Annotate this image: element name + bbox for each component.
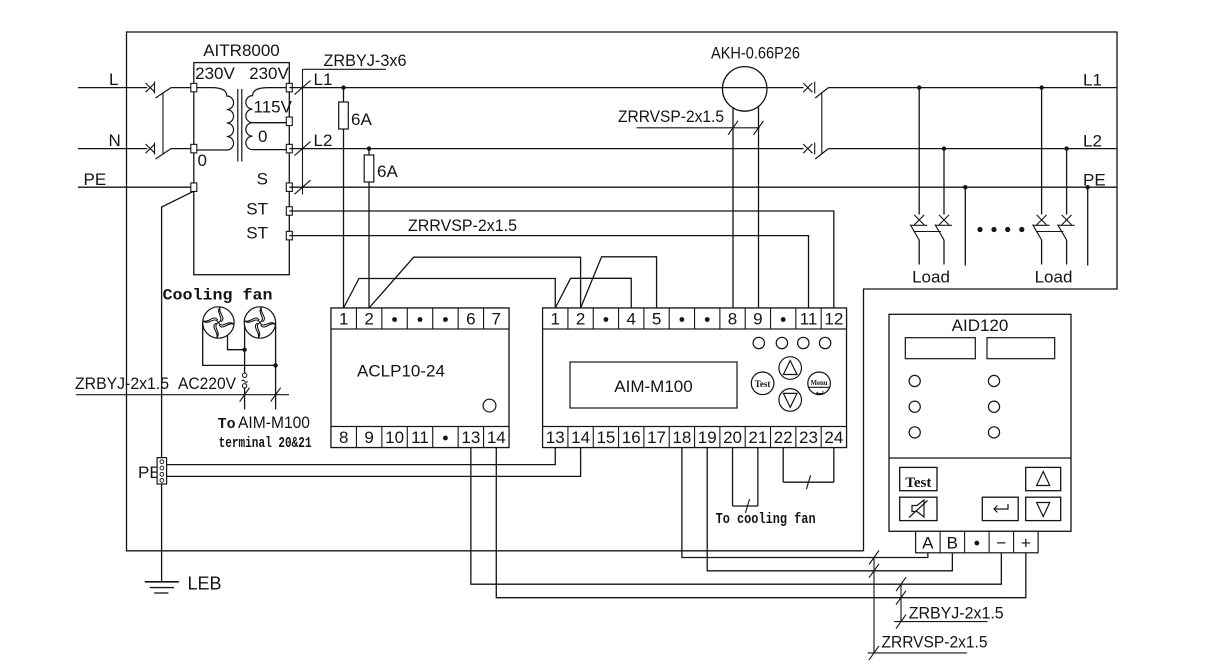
svg-text:21: 21 bbox=[748, 428, 767, 447]
svg-text:0: 0 bbox=[258, 127, 267, 146]
note To cooling fan bbox=[716, 511, 816, 528]
svg-text:Test: Test bbox=[905, 475, 931, 491]
wire AIM pin2 to pin5 jumper bbox=[581, 257, 657, 308]
cable leader RS485 bbox=[873, 558, 875, 653]
transformer T1 secondary winding bbox=[246, 88, 286, 150]
breaker QF1 pole L2 with load wire bbox=[935, 146, 952, 264]
panel U3 name AID120 bbox=[952, 316, 1009, 335]
breaker QF1 pole L1 with load wire bbox=[910, 85, 927, 264]
switch QS1 pole N fixed contact tick bbox=[154, 143, 156, 155]
fuse F2 rating 6A bbox=[377, 162, 398, 181]
svg-text:To cooling fan: To cooling fan bbox=[716, 511, 816, 528]
svg-text:0: 0 bbox=[198, 151, 207, 170]
transformer T1 primary winding bbox=[197, 88, 234, 150]
svg-text:N: N bbox=[109, 131, 121, 150]
wire ACLP pin1 to AIM pin1 bbox=[344, 279, 556, 309]
svg-text:S: S bbox=[257, 170, 268, 189]
tick pin22-24 jumper bbox=[806, 475, 810, 489]
wire fuse F1 drop to ACLP terminal 1 bbox=[343, 88, 345, 308]
svg-text:1: 1 bbox=[551, 310, 560, 329]
svg-text:L: L bbox=[109, 70, 118, 89]
transformer T1 box bbox=[194, 63, 289, 275]
node L2 right label bbox=[1083, 132, 1102, 151]
svg-text:6A: 6A bbox=[377, 162, 398, 181]
svg-text:18: 18 bbox=[672, 428, 691, 447]
svg-text:Menu: Menu bbox=[811, 378, 828, 387]
breaker QF2 linkage bbox=[1036, 231, 1064, 233]
module U1 top terminal strip pins 1 2 . 4 5 . . 8 9 . 11 12 bbox=[543, 308, 847, 329]
svg-text:8: 8 bbox=[339, 428, 348, 447]
module U1 up button bbox=[779, 357, 802, 380]
wire AIM pin24 jumper bbox=[833, 448, 835, 483]
svg-text:10: 10 bbox=[385, 428, 404, 447]
wire PE drop 2 bbox=[1087, 187, 1089, 265]
svg-text:ZRRVSP-2x1.5: ZRRVSP-2x1.5 bbox=[618, 107, 724, 126]
wire fan M1 left lead bbox=[203, 323, 276, 366]
wire N incoming bbox=[78, 148, 147, 150]
module U1 LED indicators bbox=[753, 337, 831, 348]
cable slash on L1 bbox=[295, 81, 311, 95]
wire fan M1 bottom lead bbox=[228, 335, 245, 349]
wire fan M2 bottom lead bbox=[244, 326, 246, 373]
node PE incoming label bbox=[84, 170, 107, 189]
cable slash ZRBYJ leader bbox=[896, 615, 906, 629]
svg-text:−: − bbox=[996, 533, 1006, 552]
svg-text:13: 13 bbox=[546, 428, 565, 447]
svg-text:6A: 6A bbox=[351, 110, 372, 129]
wire CT1 secondary s2 to AIM terminal 9 bbox=[758, 107, 760, 309]
wire AIM pin21 fan feed bbox=[757, 448, 759, 507]
panel U3 mute button bbox=[900, 497, 937, 520]
svg-text:20: 20 bbox=[723, 428, 742, 447]
cable label ZRRVSP-2x1.5 bottom underline bbox=[868, 652, 967, 654]
wire ACLP pin14 to AID terminal plus bbox=[496, 448, 1026, 598]
svg-text:AIM-M100: AIM-M100 bbox=[238, 413, 310, 432]
node N incoming neutral label bbox=[109, 131, 121, 150]
svg-text:22: 22 bbox=[774, 428, 793, 447]
isolator QS2 pole L1 fixed tick bbox=[814, 82, 816, 94]
cable label ZRBYJ-3x6 bbox=[324, 51, 407, 70]
isolator QS2 pole L1 blade bbox=[815, 88, 828, 98]
svg-text:AC220V: AC220V bbox=[178, 374, 237, 393]
cable slash ZRRVSP leader bbox=[869, 646, 879, 660]
module U1 display window bbox=[570, 362, 737, 408]
switch QS1 pole N blade bbox=[156, 149, 172, 159]
svg-text:15: 15 bbox=[596, 428, 615, 447]
terminal T1 0 primary bbox=[191, 144, 197, 153]
cable label ZRBYJ-2x1.5 bottom bbox=[909, 604, 1004, 623]
monitor module U1 AIM-M100 body bbox=[543, 308, 847, 448]
wire N to transformer bbox=[171, 148, 194, 150]
svg-text:A: A bbox=[922, 533, 934, 552]
cable label ZRBYJ-3x6 underline bbox=[303, 68, 387, 70]
junction dot PE drop 1 bbox=[963, 185, 967, 189]
wire PE from transformer to earth bar bbox=[162, 191, 194, 457]
load 1 label bbox=[912, 268, 950, 287]
wire earth bar to LEB ground bbox=[161, 484, 163, 582]
module U2 name ACLP10-24 bbox=[357, 362, 445, 381]
isolator QS2 pole L2 contact cross bbox=[803, 144, 812, 153]
cable slash wire B bbox=[869, 564, 879, 578]
wire CT1 secondary s1 to AIM terminal 8 bbox=[732, 108, 734, 309]
svg-text:115V: 115V bbox=[254, 98, 293, 117]
terminal T1 L primary bbox=[191, 83, 197, 92]
earth busbar bbox=[157, 458, 167, 484]
node L1 right label bbox=[1083, 71, 1102, 90]
svg-text:ZRBYJ-2x1.5: ZRBYJ-2x1.5 bbox=[909, 604, 1004, 623]
transformer T1 name AITR8000 bbox=[203, 41, 280, 60]
fuse F1 body bbox=[339, 102, 349, 129]
transformer T1 label 0 primary bbox=[198, 151, 207, 170]
terminal T1 0 secondary bbox=[286, 144, 292, 153]
junction dot fuse F2 tap on L2 bbox=[367, 146, 371, 150]
cable label ZRRVSP-2x1.5 bottom bbox=[882, 633, 988, 652]
svg-text:L2: L2 bbox=[314, 131, 333, 150]
transformer T1 secondary label 230V bbox=[249, 64, 289, 83]
wire ST2 bbox=[289, 236, 808, 308]
panel U3 terminal strip A B . - + bbox=[916, 531, 1039, 553]
svg-text:ACLP10-24: ACLP10-24 bbox=[357, 362, 445, 381]
fuse F1 rating 6A bbox=[351, 110, 372, 129]
transformer T1 label 0 secondary bbox=[258, 127, 267, 146]
panel U3 divider bbox=[889, 457, 1071, 459]
panel U3 display window 2 bbox=[987, 338, 1055, 359]
svg-text:L1: L1 bbox=[314, 70, 333, 89]
wire fan M2 right lead bbox=[275, 323, 277, 410]
switch QS1 pole L blade bbox=[156, 88, 172, 98]
wire pin22-24 jumper bottom bbox=[783, 481, 834, 483]
isolator QS2 pole L2 fixed tick bbox=[814, 143, 816, 155]
wire PE busbar to AIM pin14 bbox=[167, 448, 581, 477]
cable leader line fan bbox=[76, 394, 289, 396]
svg-text:6: 6 bbox=[466, 310, 475, 329]
switch QS1 pole L fixed contact tick bbox=[154, 82, 156, 94]
cable label ZRRVSP-2x1.5 at CT bbox=[618, 107, 724, 126]
wire PE busbar to AIM pin13 bbox=[167, 448, 556, 465]
enclosure border frame of distribution panel bbox=[127, 32, 1118, 551]
junction dot fan M2 right lead bbox=[273, 363, 277, 367]
svg-text:24: 24 bbox=[824, 428, 843, 447]
cable slash wire A bbox=[869, 551, 879, 565]
terminal T1 ST lower bbox=[286, 231, 292, 240]
cable label ZRBYJ-2x1.5 fan bbox=[75, 374, 169, 393]
module U1 menu button bbox=[808, 372, 831, 395]
module U2 indicator circle bbox=[483, 399, 496, 412]
wire PE incoming bbox=[78, 186, 194, 188]
module U1 test button bbox=[751, 372, 774, 395]
wire fan feed pair bottom bbox=[733, 505, 758, 507]
svg-text:2: 2 bbox=[364, 310, 373, 329]
fan M1 circle bbox=[203, 307, 234, 338]
svg-text:Load: Load bbox=[1035, 268, 1073, 287]
svg-text:ZRRVSP-2x1.5: ZRRVSP-2x1.5 bbox=[882, 633, 988, 652]
transformer T1 label ST upper bbox=[246, 200, 268, 219]
isolator QS2 pole L2 blade bbox=[815, 149, 828, 159]
svg-text:23: 23 bbox=[799, 428, 818, 447]
wire L2 bus bbox=[289, 148, 803, 150]
transformer T1 label 115V bbox=[254, 98, 293, 117]
svg-text:PE: PE bbox=[84, 170, 107, 189]
svg-text:5: 5 bbox=[652, 310, 661, 329]
svg-text:230V: 230V bbox=[195, 64, 235, 83]
panel U3 LED column 2 bbox=[988, 375, 999, 438]
load 2 label bbox=[1035, 268, 1073, 287]
svg-text:230V: 230V bbox=[249, 64, 289, 83]
node L incoming phase label bbox=[109, 70, 118, 89]
cable slash wire plus bbox=[896, 591, 906, 605]
svg-text:2: 2 bbox=[576, 310, 585, 329]
svg-text:Cooling fan: Cooling fan bbox=[163, 287, 273, 305]
svg-text:Load: Load bbox=[912, 268, 950, 287]
terminal T1 L1 secondary bbox=[286, 83, 292, 92]
terminal T1 PE bbox=[191, 183, 197, 192]
svg-text:B: B bbox=[947, 533, 958, 552]
svg-text:11: 11 bbox=[411, 428, 429, 447]
ellipsis dots more circuits bbox=[977, 227, 1024, 232]
svg-text:ZRRVSP-2x1.5: ZRRVSP-2x1.5 bbox=[408, 216, 517, 235]
wire L to transformer bbox=[171, 87, 194, 89]
cable label ZRRVSP-2x1.5 on ST bbox=[408, 216, 517, 235]
wire AIM pin22 jumper bbox=[782, 448, 784, 483]
module U1 name AIM-M100 bbox=[614, 377, 692, 396]
svg-text:14: 14 bbox=[571, 428, 590, 447]
svg-text:4: 4 bbox=[627, 310, 636, 329]
isolator QS2 pole L1 contact cross bbox=[803, 83, 812, 92]
breaker QF2 pole L1 with load wire bbox=[1033, 85, 1050, 264]
wire ACLP pin2 to AIM pin2 bbox=[369, 257, 581, 308]
wire S / PE bus bbox=[289, 186, 1117, 188]
wire ACLP pin13 to AID terminal minus bbox=[471, 448, 1001, 585]
cable leader ZRBYJ-3x6 bbox=[302, 69, 304, 194]
breaker QF2 pole L2 with load wire bbox=[1058, 146, 1075, 264]
ground LEB symbol bbox=[145, 582, 179, 593]
cable label underline at CT bbox=[637, 127, 760, 129]
transformer T1 primary label 230V bbox=[195, 64, 235, 83]
isolator QS2 linkage bar bbox=[821, 92, 823, 153]
fan M2 circle bbox=[244, 307, 275, 338]
svg-text:LEB: LEB bbox=[188, 574, 222, 594]
junction dot fuse F1 tap on L1 bbox=[341, 85, 345, 89]
transformer T1 core bbox=[238, 89, 242, 162]
note terminal 20&21 bbox=[219, 435, 312, 452]
earth bar PE label bbox=[138, 463, 161, 482]
svg-text:14: 14 bbox=[487, 428, 506, 447]
panel U3 down button bbox=[1026, 497, 1061, 520]
wire L incoming bbox=[78, 87, 147, 89]
cable slash wire minus bbox=[896, 577, 906, 591]
svg-text:AID120: AID120 bbox=[952, 316, 1009, 335]
op-amp module U2 ACLP10-24 body bbox=[331, 308, 509, 448]
cable slash on S bbox=[295, 180, 311, 194]
tick fan feed pair bbox=[745, 499, 749, 513]
svg-text:ST: ST bbox=[246, 224, 268, 243]
display panel U3 AID120 body bbox=[889, 314, 1071, 531]
svg-text:AKH-0.66P26: AKH-0.66P26 bbox=[711, 44, 800, 63]
breaker QF1 linkage bbox=[914, 231, 942, 233]
switch QS1 pole N contact cross bbox=[146, 144, 155, 153]
node L2 label bbox=[314, 131, 333, 150]
svg-text:9: 9 bbox=[364, 428, 373, 447]
fuse F2 body bbox=[364, 155, 374, 182]
junction dot fan leads bbox=[242, 348, 246, 352]
svg-text:7: 7 bbox=[492, 310, 501, 329]
label AC220V bbox=[178, 374, 237, 393]
panel U3 enter button bbox=[982, 497, 1018, 520]
cable slash fan wire 2 bbox=[271, 388, 281, 402]
current transformer CT1 label AKH-0.66P26 bbox=[711, 44, 800, 63]
wire AIM pin19 to AID terminal B bbox=[707, 448, 952, 571]
cooling fan caption bbox=[163, 287, 273, 305]
module U2 bottom terminal strip pins 8 9 10 11 . 13 14 bbox=[331, 427, 509, 448]
cable slash CT wire s1 bbox=[728, 121, 738, 135]
terminal T1 S bbox=[286, 183, 292, 192]
svg-text:19: 19 bbox=[698, 428, 717, 447]
panel U3 up button bbox=[1026, 467, 1061, 490]
wire ST1 bbox=[289, 211, 834, 308]
wire AC220V continues down bbox=[244, 388, 246, 409]
ground label LEB bbox=[188, 574, 222, 594]
wire fuse F2 drop to ACLP terminal 2 bbox=[368, 149, 370, 308]
svg-text:12: 12 bbox=[824, 310, 843, 329]
module U2 top terminal strip pins 1 2 . . . 6 7 bbox=[331, 308, 509, 329]
cable slash on L2 bbox=[295, 142, 311, 156]
svg-text:L2: L2 bbox=[1083, 132, 1102, 151]
note To AIM-M100 bbox=[218, 413, 310, 433]
wire AIM pin18 to AID terminal A bbox=[682, 448, 928, 558]
node L1 label bbox=[314, 70, 333, 89]
svg-text:13: 13 bbox=[461, 428, 480, 447]
cable slash CT wire s2 bbox=[754, 121, 764, 135]
module U1 down button bbox=[779, 389, 802, 412]
switch QS1 pole L contact cross bbox=[146, 83, 155, 92]
svg-text:17: 17 bbox=[647, 428, 666, 447]
cable leader power bbox=[900, 584, 902, 621]
node PE right label bbox=[1083, 170, 1106, 189]
connector AC220V pins bbox=[242, 373, 248, 388]
svg-text:ZRBYJ-2x1.5: ZRBYJ-2x1.5 bbox=[75, 374, 169, 393]
svg-text:terminal 20&21: terminal 20&21 bbox=[219, 435, 312, 452]
cable slash fan wire 1 bbox=[240, 388, 250, 402]
panel U3 Test button bbox=[900, 467, 937, 491]
svg-text:ST: ST bbox=[246, 200, 268, 219]
terminal T1 115V tap bbox=[286, 117, 292, 126]
wire L2 bus after isolator bbox=[828, 148, 1117, 150]
panel U3 display window 1 bbox=[905, 338, 975, 359]
svg-text:Test: Test bbox=[755, 379, 771, 389]
svg-text:AIM-M100: AIM-M100 bbox=[614, 377, 692, 396]
svg-text:16: 16 bbox=[622, 428, 641, 447]
svg-text:1: 1 bbox=[339, 310, 348, 329]
svg-text:To: To bbox=[218, 416, 236, 433]
wire L1 bus after isolator bbox=[828, 87, 1117, 89]
junction dot PE drop 2 bbox=[1086, 185, 1090, 189]
wire AIM pin1 to pin4 jumper bbox=[555, 278, 631, 308]
switch QS1 linkage bar bbox=[162, 94, 164, 155]
svg-text:+: + bbox=[1021, 533, 1031, 552]
module U1 bottom terminal strip pins 13-24 bbox=[543, 427, 847, 448]
panel U3 LED column 1 bbox=[909, 375, 920, 438]
current transformer CT1 ring bbox=[722, 67, 767, 112]
svg-text:11: 11 bbox=[800, 310, 818, 329]
wire AIM pin20 fan feed bbox=[732, 448, 734, 507]
transformer T1 label ST lower bbox=[246, 224, 268, 243]
svg-text:8: 8 bbox=[728, 310, 737, 329]
cable label ZRBYJ-2x1.5 bottom underline bbox=[894, 621, 987, 623]
transformer T1 label S bbox=[257, 170, 268, 189]
wire L1 bus bbox=[289, 87, 803, 89]
svg-text:L1: L1 bbox=[1083, 71, 1102, 90]
svg-text:9: 9 bbox=[753, 310, 762, 329]
svg-text:ZRBYJ-3x6: ZRBYJ-3x6 bbox=[324, 51, 407, 70]
terminal T1 ST upper bbox=[286, 207, 292, 216]
wire PE drop 1 bbox=[964, 187, 966, 265]
svg-text:AITR8000: AITR8000 bbox=[203, 41, 280, 60]
